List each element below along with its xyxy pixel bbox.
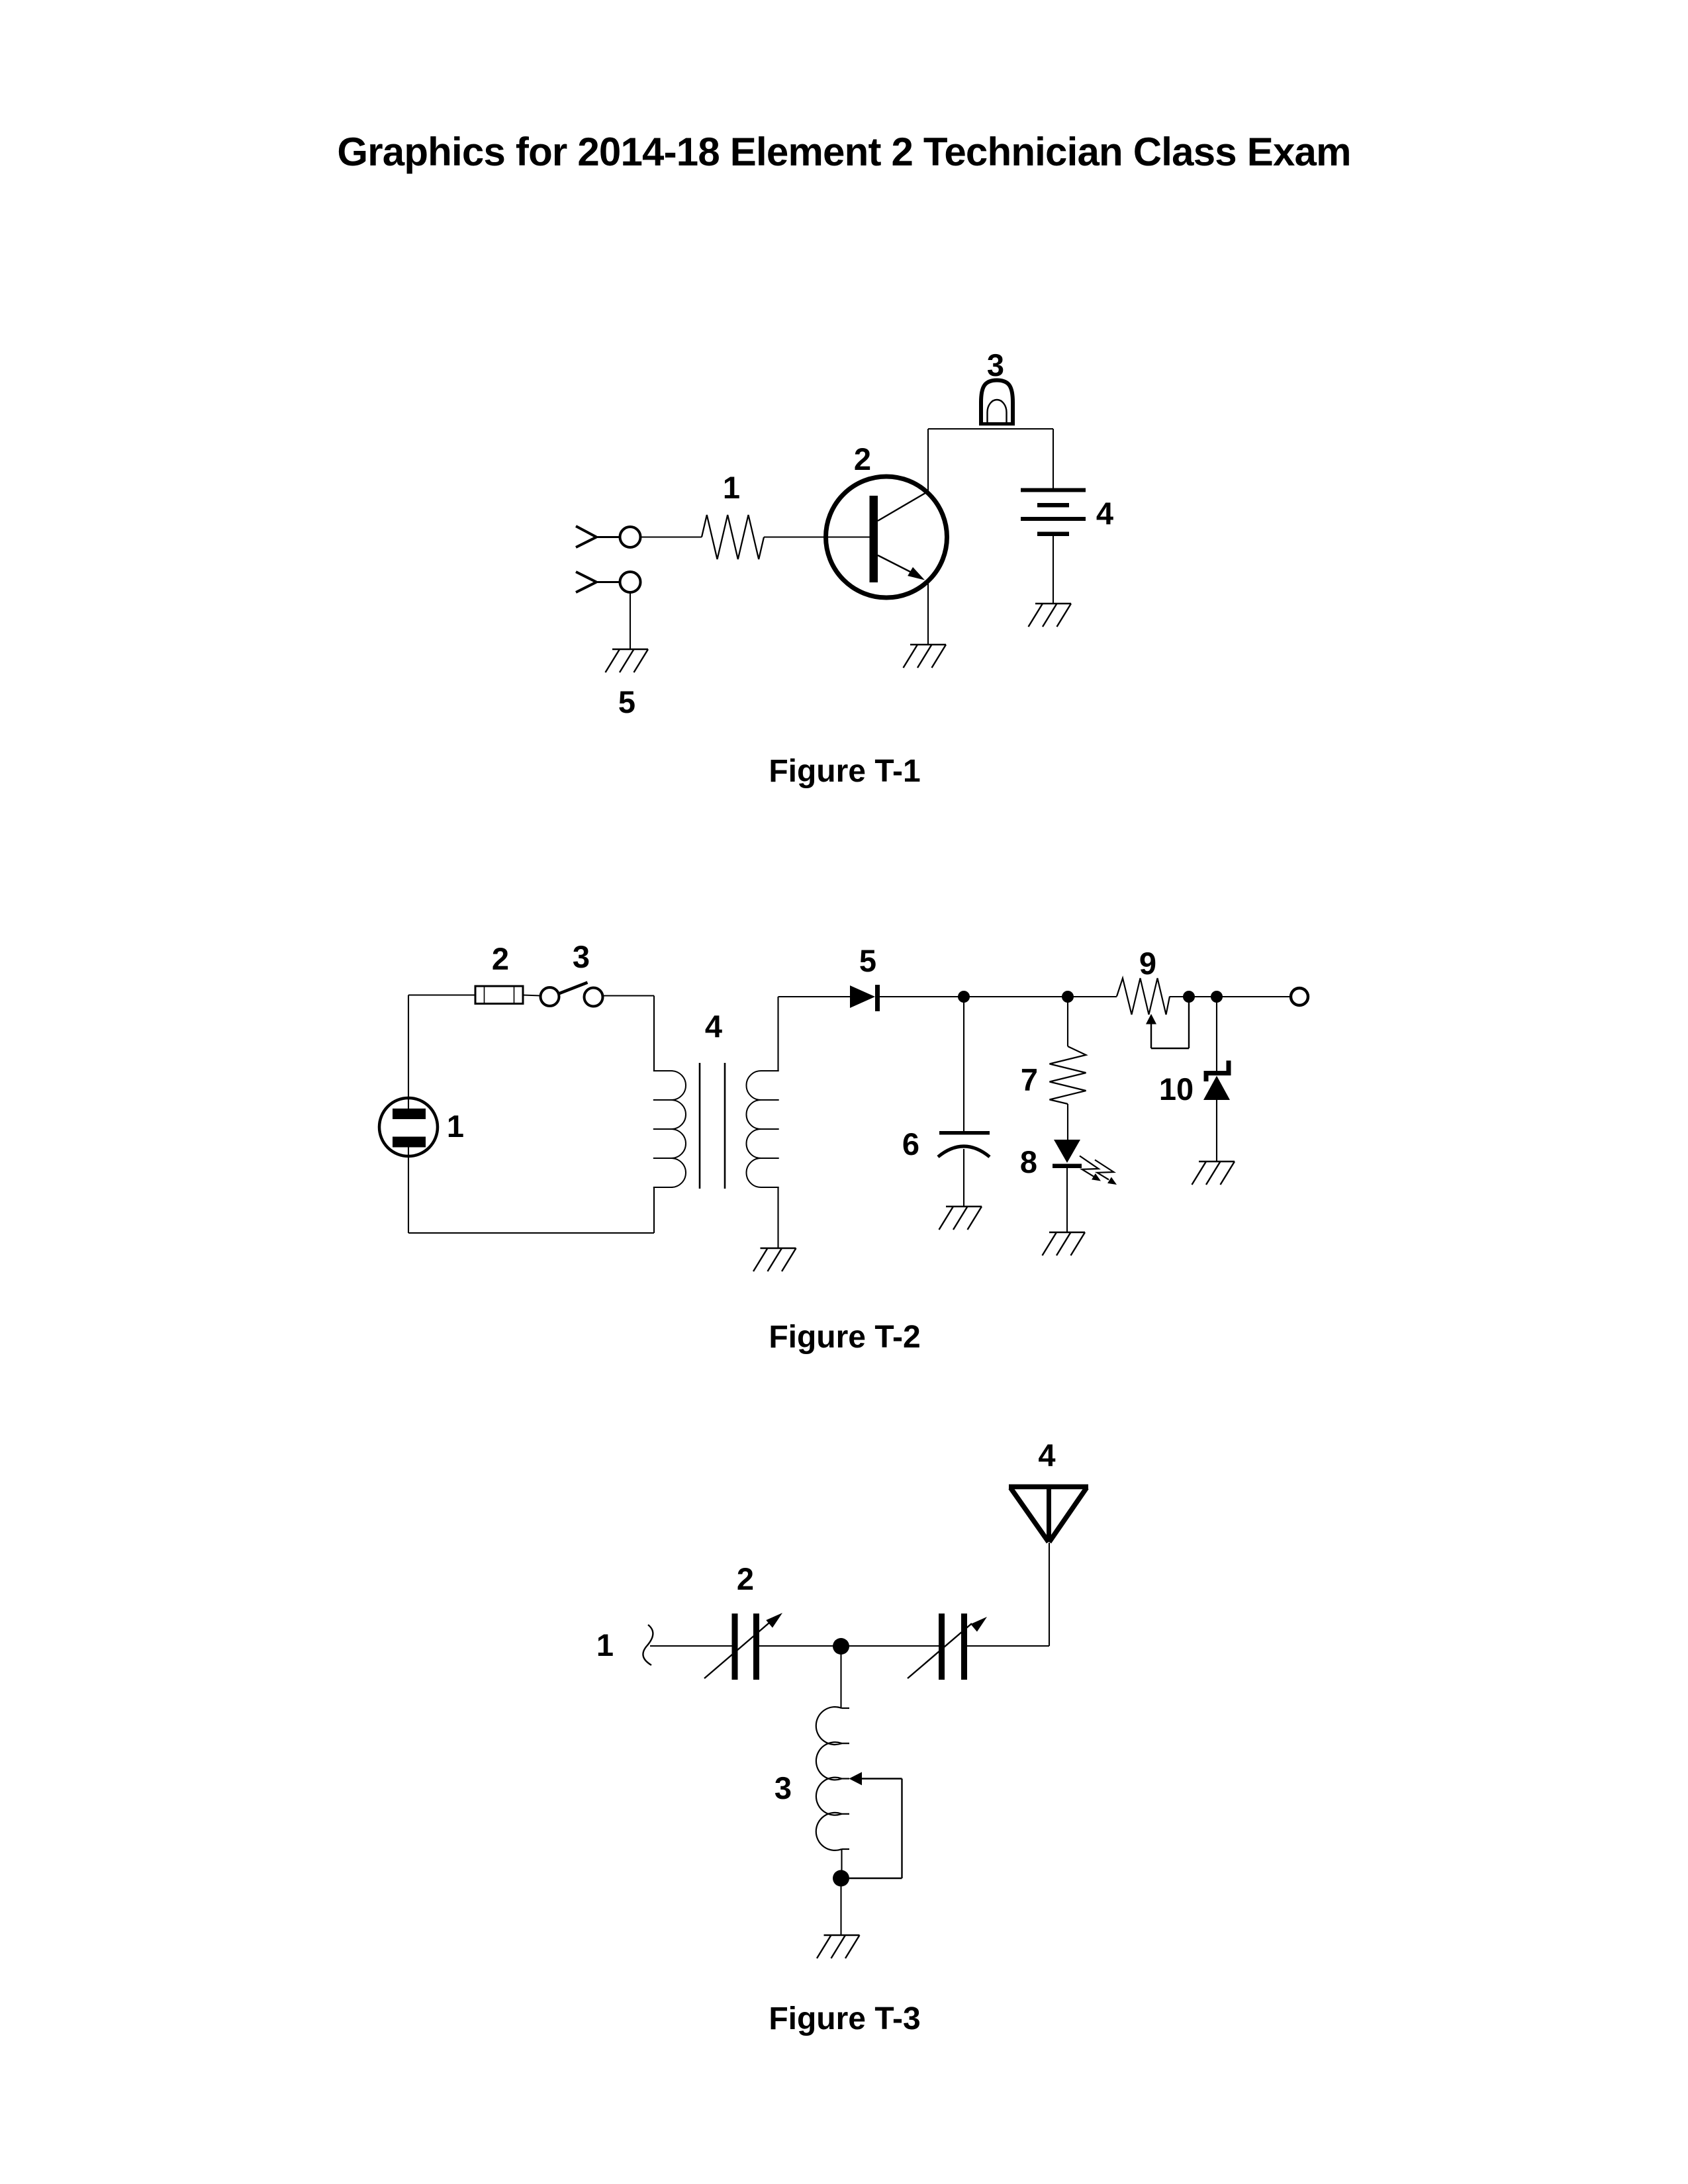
svg-text:10: 10: [1159, 1071, 1194, 1107]
svg-text:Figure T-1: Figure T-1: [769, 754, 920, 789]
ground (emitter, T-1): [904, 645, 947, 668]
rail potentiometer to output: [1170, 996, 1291, 997]
svg-text:1: 1: [447, 1109, 464, 1144]
wire rail down to battery: [1053, 429, 1054, 488]
transistor collector line: [878, 492, 928, 522]
transformer 4 primary coil: [653, 1071, 686, 1187]
antenna 4 (T-3): [1009, 1487, 1088, 1543]
junction dot C: [1183, 991, 1195, 1003]
wire secondary to diode: [778, 996, 851, 997]
ground 5 (T-1): [606, 649, 649, 672]
junction dot (T-3 bottom): [833, 1870, 849, 1887]
wire zener to ground: [1216, 1100, 1217, 1161]
secondary to ground wire: [777, 1187, 778, 1248]
T-1 input terminal (top) fork: [576, 526, 620, 547]
svg-text:2: 2: [737, 1561, 754, 1596]
svg-text:2: 2: [854, 441, 871, 477]
transistor emitter line with arrow: [878, 555, 925, 580]
wire down to primary coil: [653, 996, 655, 1071]
svg-text:Graphics for 2014-18 Element 2: Graphics for 2014-18 Element 2 Technicia…: [337, 130, 1350, 174]
wire fuse to switch: [523, 995, 541, 996]
svg-text:Figure T-2: Figure T-2: [769, 1320, 920, 1355]
transformer core lines: [700, 1063, 725, 1189]
variable capacitor (right, T-3): [908, 1614, 987, 1680]
LED emission arrow b: [1095, 1160, 1117, 1185]
battery 4 (T-1): [1021, 488, 1086, 537]
zener diode 10 (T-2): [1203, 1061, 1230, 1101]
junction dot A: [958, 991, 970, 1003]
wire LED to ground: [1066, 1168, 1068, 1232]
svg-text:7: 7: [1021, 1062, 1038, 1097]
svg-text:2: 2: [492, 941, 509, 976]
junction dot (T-3 top): [833, 1638, 849, 1655]
junction dot B: [1062, 991, 1074, 1003]
wire resistor to LED: [1067, 1104, 1068, 1140]
wire capacitor to ground: [963, 1149, 964, 1206]
T-1 input terminal (bottom) fork: [576, 572, 620, 592]
inductor 3 (T-3): [816, 1707, 849, 1850]
ground (LED, T-2): [1043, 1232, 1086, 1255]
LED emission arrow a: [1080, 1156, 1101, 1181]
ground (secondary, T-2): [753, 1248, 796, 1271]
wire resistor to transistor base: [764, 536, 870, 537]
svg-text:Figure T-3: Figure T-3: [769, 2001, 920, 2036]
lamp 3 (T-1): [979, 381, 1015, 426]
resistor 7 (T-2): [1050, 1046, 1086, 1104]
svg-text:1: 1: [723, 470, 740, 505]
tap wire loop: [849, 1779, 902, 1879]
wire dot D to zener: [1216, 997, 1217, 1071]
junction dot D: [1211, 991, 1223, 1003]
ground (T-3): [817, 1935, 860, 1958]
wire bottom terminal to ground: [630, 593, 631, 650]
diode 5 (T-2): [850, 985, 880, 1011]
wire battery to ground: [1053, 536, 1054, 604]
svg-text:9: 9: [1139, 946, 1156, 981]
potentiometer wiper arrow: [1146, 997, 1189, 1048]
T-1 input terminal (bottom) circle: [620, 572, 641, 592]
input squiggle (T-3): [643, 1625, 653, 1665]
inductor tap arrow: [849, 1772, 863, 1786]
capacitor 6 (T-2): [938, 1131, 990, 1157]
ground (zener, T-2): [1192, 1161, 1235, 1185]
collector wire up: [927, 429, 929, 492]
ground (battery, T-1): [1029, 604, 1072, 627]
wire squiggle to capacitor 2: [650, 1645, 732, 1647]
switch 3 (T-2): [541, 983, 603, 1007]
svg-text:3: 3: [774, 1770, 792, 1805]
primary coil bottom wire: [653, 1187, 655, 1233]
variable capacitor 2 (T-3): [704, 1613, 782, 1680]
antenna stem wire: [1049, 1543, 1050, 1646]
wire terminal to resistor 1: [641, 536, 702, 537]
wire switch to transformer primary: [603, 995, 655, 996]
ground (capacitor 6, T-2): [939, 1206, 982, 1230]
output terminal circle (T-2): [1291, 988, 1308, 1005]
svg-text:4: 4: [1096, 496, 1113, 531]
T-2 left loop top wire: [408, 994, 475, 995]
transistor base bar: [870, 496, 878, 582]
transistor 2 circle: [826, 477, 947, 598]
svg-text:4: 4: [705, 1009, 722, 1044]
svg-text:3: 3: [573, 939, 590, 974]
svg-text:1: 1: [596, 1627, 614, 1662]
resistor 1 (T-1): [702, 515, 764, 559]
wire inductor bottom to tap junction: [841, 1849, 842, 1870]
svg-text:8: 8: [1020, 1144, 1037, 1179]
svg-text:5: 5: [859, 943, 876, 978]
rail diode to potentiometer: [880, 996, 1117, 997]
svg-text:4: 4: [1038, 1437, 1055, 1473]
wire junction to ground (T-3): [840, 1886, 841, 1935]
svg-text:5: 5: [618, 684, 635, 719]
wire rail to resistor 7: [1067, 997, 1068, 1046]
svg-text:3: 3: [987, 347, 1004, 383]
plug 1 (T-2): [379, 1098, 438, 1156]
fuse 2 (T-2): [475, 986, 523, 1004]
potentiometer 9 (T-2): [1117, 978, 1170, 1015]
wire junction to inductor: [840, 1647, 841, 1709]
emitter wire down: [927, 581, 929, 645]
top rail wire to lamp and battery: [928, 428, 1053, 430]
left loop bottom wire: [408, 1232, 654, 1234]
wire capacitor to antenna stem: [967, 1645, 1049, 1647]
T-1 input terminal (top) circle: [620, 527, 641, 547]
capacitor 6 wire: [963, 997, 964, 1131]
svg-text:6: 6: [902, 1126, 919, 1161]
wire capacitor 2 to junction: [759, 1645, 939, 1647]
left loop left wire: [408, 995, 409, 1234]
transformer secondary coil: [747, 997, 779, 1187]
LED 8 (T-2): [1053, 1140, 1082, 1168]
